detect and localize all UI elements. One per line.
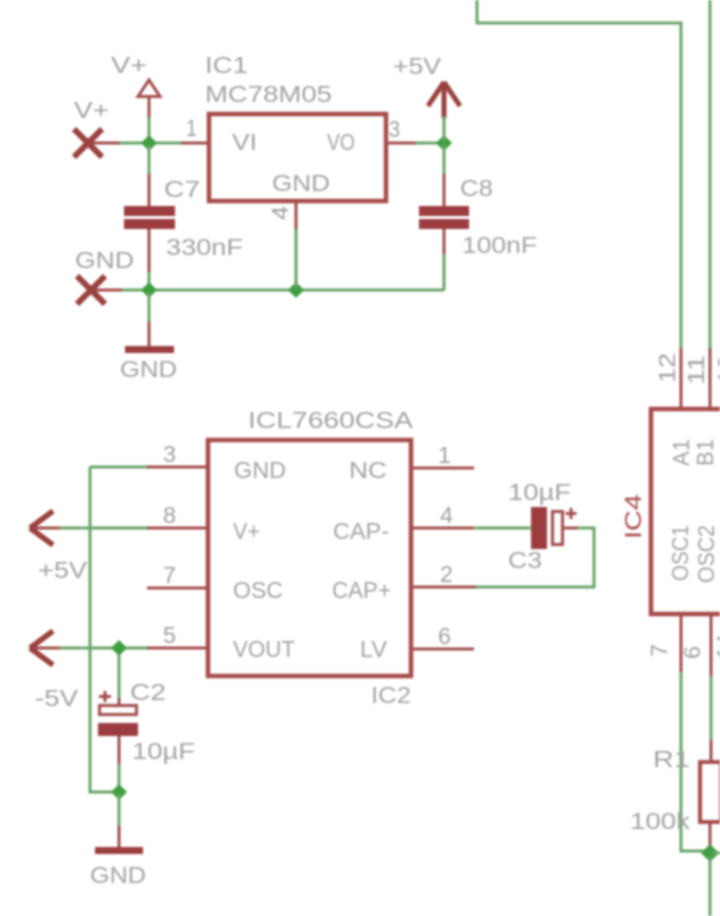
junction node D (IC1 GND) [288,282,304,298]
pin number 2 IC2 [440,561,453,587]
IC2 box [208,440,411,676]
pin 6 stub IC2 [412,648,474,651]
cross symbol GND [77,276,122,304]
wire +5V arrow to pin8 [60,527,147,530]
pin 12 stub IC4 [680,348,683,409]
svg-text:100nF: 100nF [462,232,537,258]
svg-text:C2: C2 [130,679,166,705]
junction node C (C7/GND) [141,282,157,298]
wire node C to GND symbol [148,292,151,322]
pin number 1 IC2 [438,442,451,468]
pin 2 stub IC2 [412,586,476,589]
value MC78M05 [205,81,332,107]
wire C7 to GND rail [148,272,151,288]
svg-text:GND: GND [120,356,177,382]
pin name OSC2 (rotated) [693,525,719,583]
wire top right L-shape [477,0,681,348]
pin name GND (IC2) [234,457,286,483]
pin name NC [349,457,387,483]
svg-text:10µF: 10µF [508,479,571,505]
wire node A horizontal [120,142,181,145]
wire top right edge vertical [709,0,712,348]
svg-text:CAP+: CAP+ [332,577,391,603]
IC4 box [651,409,720,614]
svg-text:2: 2 [440,561,453,587]
pin number 6 IC4 (rotated) [679,646,705,659]
wire GND rail horizontal [122,289,444,292]
pin number 5 IC2 [163,622,176,648]
label GND (cross) [75,247,134,273]
wire IC4 pin7 down [681,672,706,851]
pin number 4 IC2 [440,502,453,528]
label C3 [508,547,542,573]
pin name CAP- [333,518,389,544]
svg-text:OSC2: OSC2 [693,525,719,583]
wire node G to GND symbol [118,794,121,826]
pin number 3 [389,116,400,142]
svg-text:8: 8 [163,502,176,528]
svg-text:-5V: -5V [35,685,79,711]
pin name A1 (rotated) [668,439,694,466]
pin number 8 IC2 [163,502,176,528]
ground symbol (under C2) [95,826,143,854]
pin name OSC1 (rotated) [667,525,693,581]
pin number 7 IC2 [163,562,176,588]
svg-text:V+: V+ [233,518,260,544]
pin name CAP+ [332,577,391,603]
svg-text:GND: GND [75,247,134,273]
svg-text:GND: GND [272,170,330,196]
svg-text:IC1: IC1 [205,52,248,78]
label C7 [164,176,200,202]
value 330nF [166,234,243,260]
label IC2 [371,682,411,708]
cross symbol V+ [74,129,120,157]
ground symbol (under C7) [125,322,174,353]
svg-text:+5V: +5V [393,53,442,79]
pin 4 stub IC1 [295,203,298,229]
pin name V+ (IC2) [233,518,260,544]
label IC4 (rotated) [620,494,646,539]
svg-text:1: 1 [186,115,197,141]
capacitor C7 [124,206,175,229]
plus sign C3 [566,508,577,519]
value 100nF [462,232,537,258]
label +5V (top) [393,53,442,79]
svg-text:330nF: 330nF [166,234,243,260]
label V+ (supply) [111,52,147,78]
pin number 1 [186,115,197,141]
pin name LV [360,636,388,662]
wire C3 loop to pin2 [476,528,594,587]
svg-text:6: 6 [679,646,705,659]
pin name VOUT [233,636,295,662]
pin stub C2 top [118,698,121,705]
svg-text:3: 3 [163,441,176,467]
svg-text:VI: VI [232,129,257,155]
svg-text:4: 4 [440,502,453,528]
pin 7 stub IC4 [680,614,683,672]
svg-text:+5V: +5V [38,557,88,583]
pin name VI [232,129,257,155]
svg-text:14: 14 [712,634,720,659]
capacitor C3 (polarized) [531,507,578,549]
pin stub R1 bottom [709,824,712,849]
svg-text:R1: R1 [653,746,690,772]
wire pin3 to node B [416,142,442,145]
pin 4 stub IC2 [412,527,474,530]
svg-text:7: 7 [646,644,672,657]
svg-text:6: 6 [438,623,451,649]
svg-text:IC2: IC2 [371,682,411,708]
pin 3 stub IC1 [388,142,416,145]
pin number partial right (rotated, clipped) [712,634,720,659]
pin stub C7 top [148,174,151,206]
pin number 6 IC2 [438,623,451,649]
wire top-left vertical from V+ symbol to node A [148,115,151,141]
svg-text:4: 4 [267,206,293,220]
arrow symbol -5V [30,631,62,665]
pin name GND (IC1) [272,170,330,196]
pin 11 stub IC4 [709,348,712,409]
svg-text:3: 3 [389,116,400,142]
label ICL7660CSA [248,407,414,433]
pin stub R1 top [710,740,713,762]
value 10uF (C2) [132,738,195,764]
svg-text:NC: NC [349,457,387,483]
pin 1 stub IC2 [412,467,474,470]
pin number 12 (rotated) [654,353,680,383]
pin 5 stub IC2 [147,647,206,650]
pin 1 stub IC1 [181,142,207,145]
capacitor C8 [419,206,469,229]
svg-text:B1: B1 [692,439,718,466]
svg-text:ICL7660CSA: ICL7660CSA [248,407,414,433]
junction node F (C2 top) [111,640,127,656]
pin 8 stub IC2 [147,527,206,530]
label -5V [35,685,79,711]
svg-text:CAP-: CAP- [333,518,389,544]
label R1 [653,746,690,772]
svg-text:11: 11 [683,355,709,385]
wire IC4 pin6 to R1 [710,676,713,740]
label 10uF (C3) [508,479,571,505]
pin 7 stub IC2 [147,587,206,590]
pin name B1 (rotated) [692,439,718,466]
svg-text:V+: V+ [74,97,109,123]
pin number 4 (rotated) [267,206,293,220]
svg-text:C7: C7 [164,176,200,202]
svg-text:5: 5 [163,622,176,648]
label V+ (cross) [74,97,109,123]
wire pin3 to GND left rail [90,466,147,469]
svg-text:LV: LV [360,636,388,662]
label C2 [130,679,166,705]
resistor R1 [700,762,720,822]
pin stub C7 bottom [148,229,151,272]
junction node E (R1 bottom) [701,844,719,862]
arrow symbol +5V [30,511,62,545]
plus sign C2 [99,691,111,702]
wire IC1 pin4 to GND rail [295,229,298,288]
junction node A [141,135,157,151]
supply symbol V+ (triangle) [138,80,160,117]
pin number 11 (rotated) [683,355,709,385]
pin 6 stub IC4 [710,614,713,676]
supply symbol +5V (arrow) [428,82,460,118]
junction node G (C2 bottom) [111,784,127,800]
wire left GND rail vertical [90,467,117,792]
svg-text:IC4: IC4 [620,494,646,539]
svg-text:7: 7 [163,562,176,588]
svg-text:100k: 100k [630,808,691,834]
wire node B down to C8 [443,145,446,174]
svg-text:VOUT: VOUT [233,636,295,662]
wire node F to C2 [118,654,121,698]
svg-text:VO: VO [327,129,355,155]
svg-text:10µF: 10µF [132,738,195,764]
svg-text:12: 12 [654,353,680,383]
svg-text:GND: GND [234,457,286,483]
pin stub C8 bottom [443,229,446,254]
wire C7 top from node A [148,145,151,174]
svg-text:OSC1: OSC1 [667,525,693,581]
wire +5V symbol to node B [443,116,446,141]
IC1 box [209,114,386,201]
wire C8 to GND rail [443,254,446,290]
pin stub C2 bottom [118,736,121,764]
svg-text:C8: C8 [460,175,493,201]
svg-text:GND: GND [90,862,146,888]
value 100k [630,808,691,834]
svg-text:MC78M05: MC78M05 [205,81,332,107]
svg-text:10: 10 [713,355,720,384]
svg-text:C3: C3 [508,547,542,573]
pin number 3 IC2 [163,441,176,467]
pin name VO [327,129,355,155]
label C8 [460,175,493,201]
wire pin4 to C3 [474,527,531,530]
label GND (under C7) [120,356,177,382]
wire C2 to node G [118,764,121,792]
pin stub C8 top [443,174,446,206]
label GND (under C2) [90,862,146,888]
svg-text:OSC: OSC [233,577,283,603]
svg-text:V+: V+ [111,52,147,78]
pin number 10 partial (rotated, clipped) [713,355,720,384]
svg-text:1: 1 [438,442,451,468]
pin name OSC [233,577,283,603]
wire -5V arrow to pin5 [60,647,147,650]
wire node E right [712,852,720,855]
label IC1 [205,52,248,78]
junction node B [436,135,452,151]
pin number 7 IC4 (rotated) [646,644,672,657]
svg-text:A1: A1 [668,439,694,466]
capacitor C2 (polarized) [98,706,138,737]
pin 3 stub IC2 [147,466,206,469]
label +5V (left) [38,557,88,583]
wire node E down [709,856,712,916]
